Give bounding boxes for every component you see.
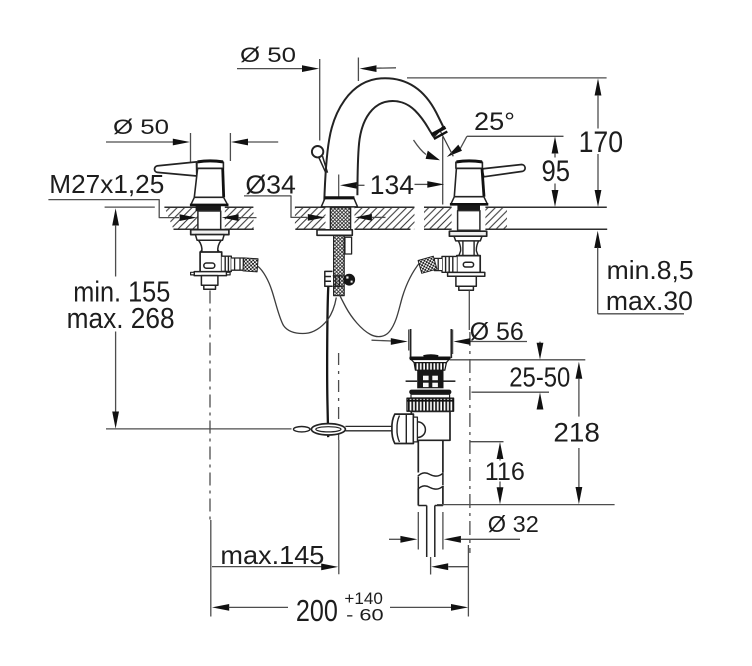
dimension Ø50 left: dimension line with right-pointing arrow <box>106 139 190 146</box>
drain tailpipe upper wide section <box>418 440 443 472</box>
svg-text:116: 116 <box>485 458 525 486</box>
drain tailpipe below break <box>418 486 443 506</box>
dimension 116: vertical line with arrows <box>497 442 504 504</box>
hole label Ø34: leader underline with step down to deck <box>244 196 307 218</box>
dimension max.145: line with right arrow at spout axis <box>212 564 338 571</box>
right valve body right edge heavy line <box>482 168 484 196</box>
left valve flexible hose hanging curve <box>258 266 337 333</box>
svg-text:min.8,5: min.8,5 <box>607 255 694 285</box>
dimension Ø56: right arrow with tail under label <box>453 338 527 345</box>
drain tailpipe wavy break <box>418 473 444 490</box>
drain reference dash-dot line right of body <box>469 332 471 553</box>
svg-text:- 60: - 60 <box>346 605 384 624</box>
left valve lock washer below deck <box>191 230 229 235</box>
dimension min.8,5/max.30: vertical line with up arrow and underline <box>594 231 684 314</box>
drain plug knurled ring <box>414 363 446 371</box>
right valve lever handle pointing right <box>482 165 525 177</box>
drain top tube walls <box>411 329 452 358</box>
dimension 116: upper reference line at side outlet level <box>471 441 504 443</box>
dimension Ø50 left: left-pointing arrow with tail <box>231 139 278 146</box>
thread label M27x1,25: leader underline and step to arrow <box>48 200 179 218</box>
drain axis line below pipe <box>430 557 432 575</box>
reference line at spout top height for 170 <box>407 77 607 79</box>
left valve shank collar dark band at deck surface <box>196 206 221 211</box>
dimension Ø50 top: left dimension line with arrow <box>237 65 319 72</box>
svg-text:95: 95 <box>542 155 571 188</box>
left valve handle cap <box>197 161 224 168</box>
svg-text:M27x1,25: M27x1,25 <box>49 169 164 199</box>
dimension 95: vertical line with arrows <box>552 136 559 207</box>
dimension Ø32: left extension line <box>417 512 419 550</box>
svg-text:25°: 25° <box>474 108 515 136</box>
right valve mounting collar with wings <box>448 272 485 276</box>
left valve tail nut <box>204 285 216 289</box>
right valve side outlet port <box>442 256 457 272</box>
pop-up rod guide housing right of hose <box>345 237 352 254</box>
pop-up rod pivot ball <box>343 274 355 286</box>
horizontal pop-up rod to drain lever <box>345 426 392 430</box>
dimension Ø50 top: left extension line down to spout <box>319 59 321 141</box>
countertop deck hatched section left of left valve <box>164 207 197 229</box>
dimension 25 degrees: leader with arrow to outlet face <box>447 136 467 157</box>
drain internal joint arc <box>418 422 426 438</box>
left valve mounting collar with wings <box>191 272 231 276</box>
right valve flexible hose hanging curve <box>339 262 420 336</box>
right valve locknut <box>454 236 482 241</box>
spout flexible supply hose braided section <box>334 235 345 295</box>
svg-text:200: 200 <box>296 593 338 628</box>
countertop deck section right of right valve with hatch fading out <box>485 207 607 229</box>
countertop deck hatched section left of right valve <box>424 207 452 229</box>
svg-text:134: 134 <box>370 170 414 200</box>
pop-up knob ball on spout <box>312 146 323 157</box>
thread label M27x1,25: arrow pointing right at left valve shank <box>180 214 197 221</box>
dimension 25-50: lower reference line <box>472 391 550 393</box>
left valve axis line lower solid part <box>210 520 212 617</box>
svg-text:max.145: max.145 <box>220 540 324 570</box>
dimension max.145: left arrow at drain axis with tail <box>431 563 468 570</box>
svg-text:Ø 50: Ø 50 <box>113 115 169 139</box>
spout threaded shank through deck <box>330 208 350 230</box>
spout centerline through base <box>338 175 340 208</box>
dimension Ø50 left: right extension line <box>229 133 231 161</box>
svg-text:170: 170 <box>579 126 624 159</box>
svg-text:25-50: 25-50 <box>509 362 570 393</box>
pull rod chain small link <box>294 427 310 432</box>
left valve base flange <box>190 197 229 205</box>
pop-up rod clamp bracket <box>325 271 343 286</box>
left valve hose nipple <box>231 258 243 270</box>
dimension min.155/max.268: extension line at deck top level <box>105 206 155 208</box>
right valve tailpiece block <box>456 276 476 286</box>
countertop deck hatched section right of left valve <box>225 207 254 229</box>
svg-text:max.30: max.30 <box>606 286 693 316</box>
left valve body tapering down <box>194 168 223 197</box>
spout outlet aerator end face <box>431 127 447 139</box>
svg-text:Ø 50: Ø 50 <box>240 43 296 67</box>
extension line from spout outlet down to deck <box>442 137 444 205</box>
right valve tail nut <box>459 286 474 290</box>
right valve body block <box>457 256 480 275</box>
dimension 200: left arrow pointing left <box>212 604 288 611</box>
drain tailpipe shoulder step <box>418 505 443 507</box>
right valve base flange <box>450 197 488 205</box>
dimension Ø56: right extension line <box>452 330 454 355</box>
drain rod union nut on left <box>392 414 414 443</box>
right valve threaded shank through deck <box>458 211 480 231</box>
svg-text:218: 218 <box>553 417 600 447</box>
dimension 134: left arrow pointing at spout centerline <box>340 182 365 189</box>
left valve locknut <box>195 235 224 241</box>
dimension Ø50 top: right arrow with tail <box>360 65 396 72</box>
right valve lock washer below deck <box>449 231 486 236</box>
spout escutcheon base <box>321 198 357 207</box>
horizontal reference line at pull-rod chain level <box>106 428 292 430</box>
right valve body tapering down <box>454 168 484 196</box>
pull rod chain large link <box>311 424 345 435</box>
right valve braided hose end <box>418 256 437 273</box>
svg-text:max. 268: max. 268 <box>67 303 175 335</box>
spout mounting washer below deck <box>317 230 352 236</box>
dimension 170: vertical line with arrows <box>595 78 602 207</box>
drain seal washer dark band <box>409 390 451 395</box>
dimension 25-50: lower up arrow <box>537 392 544 409</box>
right valve handle cap <box>456 161 483 168</box>
spout axis line lower solid part <box>338 440 340 574</box>
countertop deck hatched section right of spout <box>355 207 415 229</box>
spout mounting hole right arrow pointing left with tail <box>355 214 386 221</box>
right valve supply stub line below <box>468 291 470 331</box>
drain body housing <box>411 411 450 440</box>
dimension Ø32: left arrow with tail <box>389 536 417 543</box>
drain lower narrow pipe <box>427 506 435 558</box>
left valve threaded shank through deck <box>198 211 221 230</box>
left valve neck with concave sides <box>199 241 221 253</box>
left valve lever handle pointing left <box>155 162 197 176</box>
dimension min.155/max.268: vertical line with up arrow <box>112 208 119 428</box>
dimension Ø56: left arrow with tail <box>372 338 408 345</box>
reference line at spout outlet height for 95 <box>467 135 564 137</box>
shared lower reference line for 116 and 218 <box>437 504 615 506</box>
right valve axis line lower solid part <box>467 545 469 617</box>
drain band below seal <box>411 394 450 398</box>
right valve shank collar dark band at deck surface <box>457 205 480 210</box>
dimension Ø32: right arrow with tail <box>444 536 520 543</box>
spout body: curved tube outline <box>324 78 443 203</box>
pull rod from clamp down to chain <box>327 287 328 438</box>
left valve centerline dash-dot downwards <box>209 291 211 521</box>
left valve body right edge heavy line <box>223 168 224 197</box>
dimension 25 degrees: curved leader with arrow on left of outlet line <box>414 140 441 160</box>
dimension 134: right arrow pointing at outlet extension line <box>415 181 445 188</box>
reference line at plug top level for 25-50 and 218 <box>450 359 586 361</box>
countertop deck hatched section left of spout <box>295 207 326 229</box>
left valve tailpiece block <box>201 276 218 286</box>
svg-text:Ø 32: Ø 32 <box>488 511 539 537</box>
dimension Ø50 top: right extension line <box>357 58 359 82</box>
dimension Ø50 left: left extension line <box>190 133 192 163</box>
slanted outlet face reference line <box>441 132 454 157</box>
left valve body slot <box>204 263 215 268</box>
svg-text:Ø34: Ø34 <box>245 169 296 199</box>
dimension 218: vertical line with arrows <box>576 362 583 505</box>
right valve neck <box>458 241 478 256</box>
dimension 25-50: upper down arrow <box>537 342 544 360</box>
right valve body slot <box>463 262 473 267</box>
drain flange knurled locknut ring <box>407 398 454 411</box>
drain plug flared head <box>410 355 450 362</box>
spout centerline dashed below deck <box>338 353 340 440</box>
hole label Ø34: arrow pointing right at spout mounting hole <box>308 214 325 221</box>
drain plug stem block with crossbar holes <box>406 370 456 388</box>
dimension Ø56: left extension line <box>408 330 410 351</box>
left valve body block <box>200 252 222 273</box>
pop-up knob stem <box>319 156 328 173</box>
left valve side outlet port <box>222 256 232 271</box>
right valve hose nipple <box>434 258 442 270</box>
left valve braided hose end <box>243 258 258 272</box>
dimension 200: right arrow pointing right <box>390 604 468 611</box>
dimension Ø32: right extension line <box>442 512 444 550</box>
drain nut connector band <box>413 417 417 442</box>
left valve shank right side arrow pointing left with tail <box>222 214 257 221</box>
